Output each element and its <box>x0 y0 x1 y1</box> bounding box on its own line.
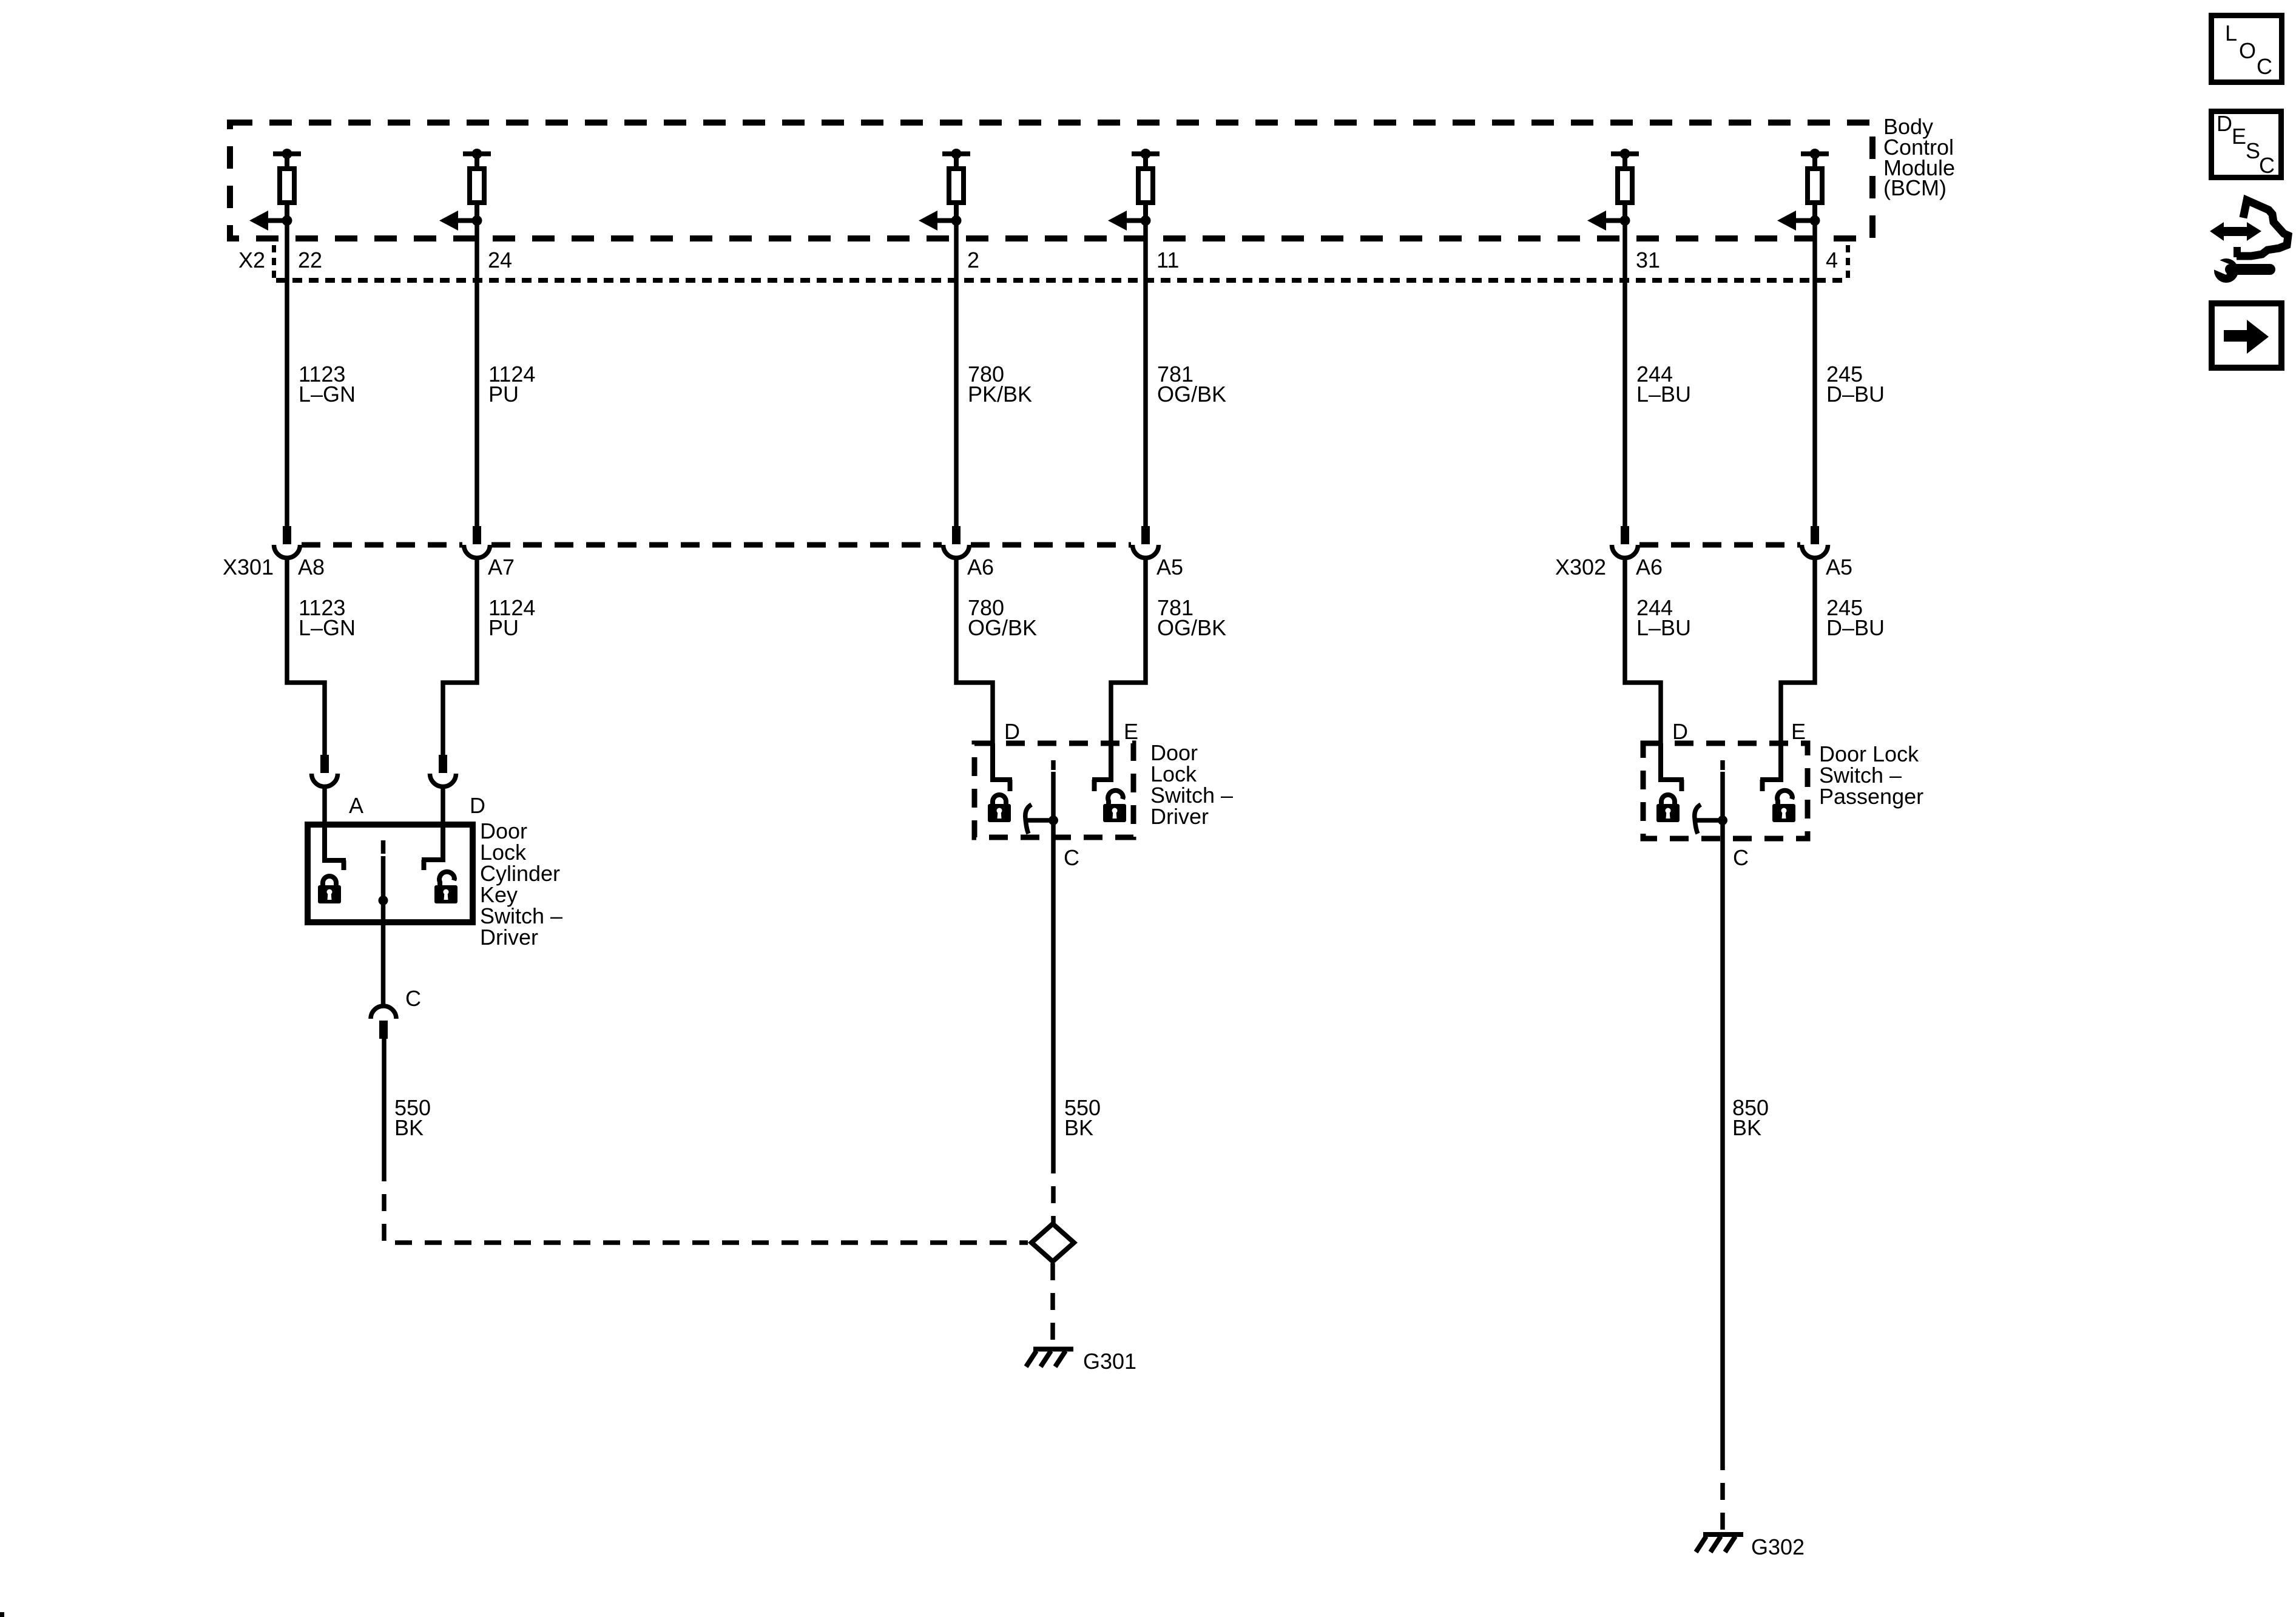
svg-text:PU: PU <box>488 615 519 640</box>
svg-text:E: E <box>1791 719 1806 744</box>
S2 common pole dashed stub <box>1051 760 1056 770</box>
svg-text:4: 4 <box>1826 248 1838 272</box>
connector X302 terminal (column 5) pin and socket <box>1612 526 1638 558</box>
dashed wire to splice (middle) <box>1051 1156 1056 1223</box>
wire segment with jog (column 1) <box>287 558 325 755</box>
svg-text:A6: A6 <box>967 555 994 579</box>
svg-text:PU: PU <box>488 382 519 407</box>
wire segment with jog (column 2) <box>443 558 477 755</box>
BCM output driver U1 driver pin 31: resistor and arrow <box>1587 149 1639 231</box>
wire from BCM pin down to connector (column 4) <box>1143 221 1148 527</box>
wire label 550 BK (middle) <box>1064 1095 1101 1140</box>
svg-text:C: C <box>405 986 421 1011</box>
forward-arrow legend box <box>2212 303 2281 368</box>
wire label 244 L–BU (upper) <box>1636 362 1691 407</box>
wire segment with jog (column 3) <box>956 558 993 780</box>
svg-text:2: 2 <box>967 248 979 272</box>
svg-text:22: 22 <box>298 248 322 272</box>
wire label 245 D–BU (upper) <box>1826 362 1885 407</box>
svg-text:OG/BK: OG/BK <box>1157 382 1226 407</box>
svg-text:OG/BK: OG/BK <box>968 615 1037 640</box>
S1 unlock contact (terminal D) <box>422 825 443 870</box>
S2 common pole wire 550 BK <box>1051 772 1056 1156</box>
ground symbol G302 <box>1696 1534 1743 1552</box>
key switch connector terminal C (socket and pin) <box>371 1006 396 1039</box>
svg-text:A: A <box>349 793 363 818</box>
connector X301 dashed line <box>302 542 1131 548</box>
S2 component label <box>1150 740 1233 829</box>
wire label 850 BK <box>1732 1095 1769 1140</box>
splice diamond <box>1032 1224 1074 1261</box>
wire label 1123 L–GN (upper) <box>299 362 356 407</box>
switch S1 Door Lock Cylinder Key Switch - Driver solid box <box>308 825 473 922</box>
svg-text:D: D <box>1004 719 1020 744</box>
BCM output driver U1 driver pin 24: resistor and arrow <box>439 149 491 231</box>
ground symbol G301 <box>1026 1349 1073 1367</box>
svg-text:D–BU: D–BU <box>1826 615 1885 640</box>
S2 actuator hook and junction <box>1025 805 1058 834</box>
Body Control Module (BCM) dashed outline <box>230 123 1872 238</box>
svg-text:Passenger: Passenger <box>1819 784 1923 809</box>
connector X301 terminal (column 1) pin and socket <box>274 526 300 558</box>
S3 open padlock icon <box>1772 791 1795 822</box>
wire segment with jog (column 4) <box>1111 558 1146 780</box>
connector X2 left separator dash <box>272 245 276 280</box>
svg-text:E: E <box>2232 124 2246 149</box>
S2 open padlock icon <box>1103 791 1126 822</box>
BCM output driver U1 driver pin 22: resistor and arrow <box>249 149 301 231</box>
wire label 780 OG/BK (lower) <box>968 595 1037 640</box>
LOC legend box <box>2212 16 2282 83</box>
svg-text:D: D <box>1672 719 1688 744</box>
wire label 781 OG/BK (lower) <box>1157 595 1226 640</box>
svg-text:BK: BK <box>1732 1115 1761 1140</box>
svg-text:24: 24 <box>488 248 512 272</box>
wire from BCM pin down to connector (column 3) <box>954 221 959 527</box>
svg-text:PK/BK: PK/BK <box>968 382 1032 407</box>
switch S3 Door Lock Switch - Passenger dashed box <box>1643 743 1808 839</box>
svg-text:A6: A6 <box>1636 555 1663 579</box>
S1 lock contact (terminal A) <box>325 825 346 870</box>
BCM output driver U1 driver pin 2: resistor and arrow <box>919 149 970 231</box>
connector X301 terminal (column 2) pin and socket <box>464 526 490 558</box>
wire from BCM pin down to connector (column 6) <box>1812 221 1817 527</box>
svg-text:D: D <box>2217 111 2232 136</box>
svg-text:S: S <box>2246 138 2260 163</box>
key switch connector terminal D <box>430 755 456 787</box>
wire segment with jog (column 6) <box>1781 558 1815 780</box>
svg-text:G301: G301 <box>1083 1349 1136 1374</box>
S1 closed padlock icon <box>318 876 341 903</box>
S3 component label <box>1819 741 1923 809</box>
S1 open padlock icon <box>434 872 458 903</box>
svg-text:C: C <box>2257 54 2272 79</box>
S3 actuator hook and junction <box>1695 805 1727 834</box>
svg-text:BK: BK <box>1064 1115 1093 1140</box>
wire segment with jog (column 5) <box>1625 558 1661 780</box>
switch S2 Door Lock Switch - Driver dashed box <box>974 743 1133 837</box>
connector X2 right separator dash <box>1846 245 1850 280</box>
connector X301 terminal (column 4) pin and socket <box>1133 526 1159 558</box>
key switch connector terminal A <box>312 755 338 787</box>
S3 lock contact (terminal D) <box>1661 743 1684 791</box>
svg-text:BK: BK <box>394 1115 424 1140</box>
svg-text:X302: X302 <box>1555 555 1606 579</box>
S1 component label <box>480 819 562 950</box>
S2 unlock contact (terminal E) <box>1092 743 1111 791</box>
wire from BCM pin down to connector (column 1) <box>285 221 289 527</box>
DESC legend box <box>2212 111 2281 178</box>
connector-view icon: double arrow, connector outline, wrench <box>2209 200 2288 283</box>
svg-text:O: O <box>2239 38 2256 63</box>
svg-text:L–GN: L–GN <box>299 615 356 640</box>
S3 common pole wire 850 BK <box>1720 772 1725 1453</box>
svg-text:11: 11 <box>1156 248 1179 272</box>
svg-text:31: 31 <box>1636 248 1660 272</box>
dashed wire splice to ground G301 <box>1050 1263 1055 1348</box>
svg-text:A5: A5 <box>1156 555 1183 579</box>
wire from BCM pin down to connector (column 5) <box>1622 221 1627 527</box>
svg-text:L–BU: L–BU <box>1636 615 1691 640</box>
wire terminal A to key switch <box>322 787 327 825</box>
svg-text:L–BU: L–BU <box>1636 382 1691 407</box>
svg-text:D–BU: D–BU <box>1826 382 1885 407</box>
svg-text:L: L <box>2225 21 2237 46</box>
dashed ground run from key switch to splice <box>384 1164 1028 1243</box>
wire label 1124 PU (lower) <box>488 595 535 640</box>
svg-text:C: C <box>2259 153 2275 178</box>
BCM label <box>1883 114 1955 200</box>
svg-text:(BCM): (BCM) <box>1883 175 1947 200</box>
wire label 1124 PU (upper) <box>488 362 535 407</box>
wire label 244 L–BU (lower) <box>1636 595 1691 640</box>
connector X2 dotted line <box>276 278 1848 283</box>
BCM output driver U1 driver pin 4: resistor and arrow <box>1777 149 1829 231</box>
wire terminal D to key switch <box>441 787 445 825</box>
S2 lock contact (terminal D) <box>993 743 1012 791</box>
svg-text:X301: X301 <box>223 555 274 579</box>
connector X301 terminal (column 3) pin and socket <box>944 526 970 558</box>
dashed wire to ground G302 <box>1720 1453 1725 1533</box>
connector X302 dashed line <box>1639 542 1800 548</box>
svg-text:E: E <box>1124 719 1138 744</box>
wire label 780 PK/BK (upper) <box>968 362 1032 407</box>
wire label 1123 L–GN (lower) <box>299 595 356 640</box>
S3 closed padlock icon <box>1656 795 1680 822</box>
svg-text:Driver: Driver <box>1150 804 1209 829</box>
wire 550 BK from key switch C <box>382 1039 387 1164</box>
wire label 550 BK (left) <box>394 1095 431 1140</box>
svg-text:X2: X2 <box>238 248 265 272</box>
svg-text:A7: A7 <box>488 555 515 579</box>
svg-text:D: D <box>470 793 485 818</box>
wire label 245 D–BU (lower) <box>1826 595 1885 640</box>
S1 pole junction dot <box>379 896 388 905</box>
S3 unlock contact (terminal E) <box>1760 743 1781 791</box>
svg-text:A5: A5 <box>1826 555 1852 579</box>
svg-text:C: C <box>1064 845 1079 870</box>
svg-text:G302: G302 <box>1751 1534 1805 1559</box>
wire label 781 OG/BK (upper) <box>1157 362 1226 407</box>
wire from BCM pin down to connector (column 2) <box>474 221 479 527</box>
svg-text:OG/BK: OG/BK <box>1157 615 1226 640</box>
connector X302 terminal (column 6) pin and socket <box>1802 526 1828 558</box>
S1 common pole dashed stub <box>381 840 386 854</box>
svg-text:A8: A8 <box>298 555 325 579</box>
S3 common pole dashed stub <box>1720 760 1725 770</box>
S1 common pole wire <box>381 856 386 1006</box>
BCM output driver U1 driver pin 11: resistor and arrow <box>1108 149 1160 231</box>
svg-text:L–GN: L–GN <box>299 382 356 407</box>
page corner mark <box>0 1612 4 1617</box>
S2 closed padlock icon <box>988 795 1011 822</box>
svg-text:C: C <box>1733 845 1749 870</box>
svg-text:Driver: Driver <box>480 925 538 950</box>
